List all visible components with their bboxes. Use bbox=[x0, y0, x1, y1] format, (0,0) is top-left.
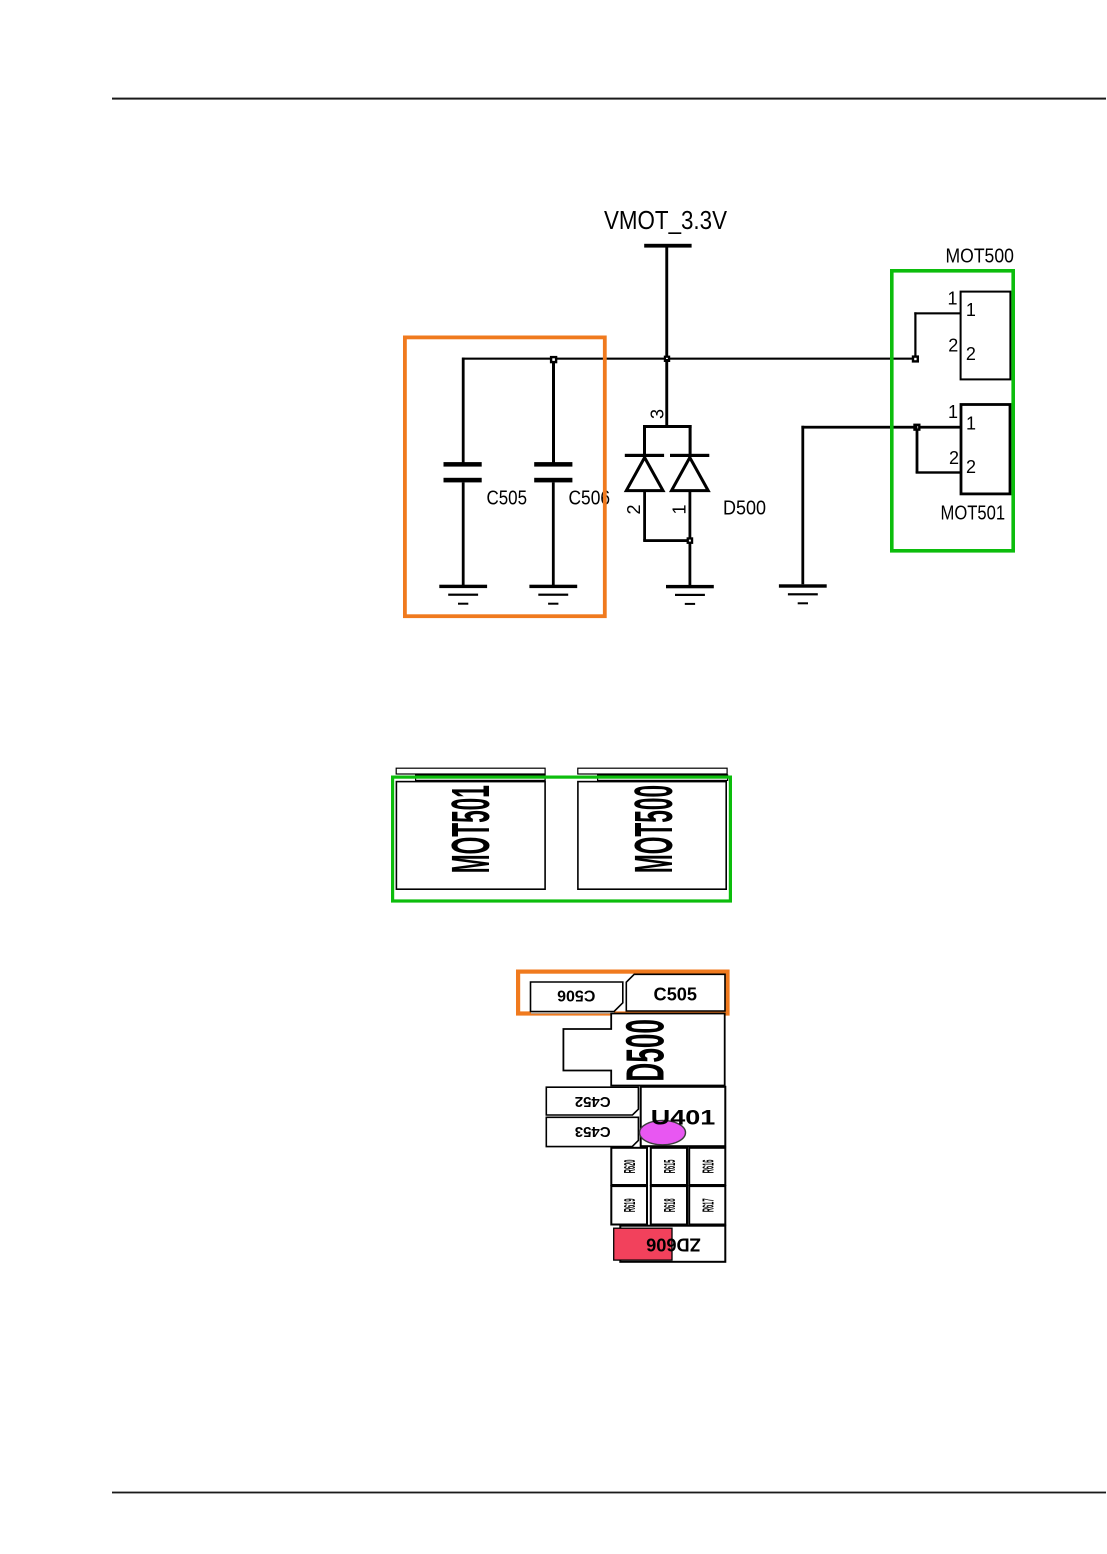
top rule bbox=[112, 98, 1106, 100]
C506 pad bbox=[531, 982, 623, 1012]
connector MOT500 box bbox=[961, 292, 1011, 380]
ZD606 highlight red bbox=[614, 1228, 672, 1260]
highlight box green (layout MOT group) bbox=[393, 777, 731, 901]
diode D500-1 triangle bbox=[672, 458, 709, 491]
svg-text:R620: R620 bbox=[621, 1159, 640, 1173]
svg-text:D500: D500 bbox=[723, 498, 766, 520]
svg-text:MOT501: MOT501 bbox=[441, 785, 501, 873]
svg-text:2: 2 bbox=[966, 457, 976, 477]
junction node main (VMOT/D500) bbox=[664, 356, 670, 362]
svg-text:MOT500: MOT500 bbox=[946, 246, 1014, 268]
svg-text:C452: C452 bbox=[575, 1093, 611, 1110]
MOT500 footprint inner bar bbox=[598, 775, 728, 780]
ground C505 bbox=[439, 585, 487, 588]
bottom rule bbox=[112, 1492, 1106, 1494]
capacitor C505 bbox=[444, 462, 482, 467]
resistor R618 pad bbox=[651, 1186, 687, 1224]
wire main node to D500 pin3 bbox=[665, 359, 668, 427]
svg-text:2: 2 bbox=[624, 504, 644, 514]
svg-text:2: 2 bbox=[966, 344, 976, 364]
svg-text:ZD606: ZD606 bbox=[646, 1234, 701, 1254]
C506 pad shadow bbox=[531, 1012, 614, 1014]
wire MOT501 ground drop bbox=[801, 426, 804, 585]
resistor R615 pad bbox=[651, 1148, 687, 1185]
svg-text:MOT501: MOT501 bbox=[941, 502, 1006, 524]
MOT501 footprint top bar bbox=[396, 768, 545, 774]
junction MOT501 pin1 node bbox=[913, 424, 920, 431]
MOT500 footprint body bbox=[578, 782, 726, 890]
wire MOT501 pin1 stub bbox=[916, 426, 961, 429]
D500 pad bbox=[563, 1014, 724, 1086]
svg-text:2: 2 bbox=[949, 448, 959, 468]
svg-text:MOT500: MOT500 bbox=[624, 785, 684, 873]
svg-text:3: 3 bbox=[648, 409, 668, 419]
svg-text:C505: C505 bbox=[487, 488, 528, 510]
MOT501 footprint inner bar bbox=[416, 775, 545, 780]
wire MOT501 pin tie vertical bbox=[916, 426, 919, 473]
resistor R620 pad bbox=[611, 1148, 647, 1185]
svg-text:1: 1 bbox=[948, 402, 958, 422]
svg-text:C453: C453 bbox=[575, 1123, 611, 1140]
svg-text:C506: C506 bbox=[557, 987, 595, 1004]
resistor R617 pad bbox=[689, 1186, 725, 1224]
diode D500-1 cathode bar bbox=[670, 454, 709, 457]
diode D500-2 cathode bar bbox=[625, 454, 664, 457]
highlight box green (MOT500/MOT501 group) bbox=[892, 271, 1013, 551]
svg-text:R615: R615 bbox=[660, 1159, 679, 1173]
C453 pad bbox=[546, 1117, 638, 1146]
svg-text:R618: R618 bbox=[660, 1198, 679, 1212]
ZD606 pad bbox=[620, 1226, 725, 1262]
wire MOT500 pin1 stub bbox=[914, 312, 960, 314]
MOT501 footprint body bbox=[396, 782, 545, 890]
svg-text:U401: U401 bbox=[651, 1105, 716, 1129]
junction D500 anode node bbox=[687, 537, 694, 544]
svg-text:1: 1 bbox=[966, 413, 976, 433]
wire D500 anode bridge bbox=[643, 539, 691, 542]
svg-text:1: 1 bbox=[670, 504, 690, 514]
wire MOT501 to ground horizontal bbox=[801, 426, 917, 429]
svg-text:1: 1 bbox=[966, 300, 976, 320]
svg-text:R617: R617 bbox=[699, 1198, 718, 1212]
wire C505 drop bbox=[462, 358, 465, 464]
wire main horizontal net bbox=[462, 358, 916, 360]
MOT500 footprint top bar bbox=[578, 768, 727, 774]
ground MOT501 bbox=[779, 584, 827, 587]
wire VMOT bar to main node bbox=[665, 246, 668, 359]
D500 top tie bar bbox=[643, 425, 692, 428]
wire MOT501 pin2 stub bbox=[916, 471, 961, 473]
svg-text:VMOT_3.3V: VMOT_3.3V bbox=[604, 205, 728, 235]
diode D500-2 triangle bbox=[626, 458, 663, 491]
ground C506 bbox=[529, 585, 577, 588]
marker magenta ellipse U401 bbox=[640, 1120, 686, 1144]
C505 pad bbox=[626, 974, 725, 1011]
U401 body bbox=[641, 1087, 726, 1146]
svg-text:R619: R619 bbox=[621, 1198, 640, 1212]
svg-text:1: 1 bbox=[947, 289, 957, 309]
power bar VMOT_3.3V bbox=[644, 244, 691, 248]
wire C506 drop bbox=[552, 359, 555, 464]
svg-text:D500: D500 bbox=[615, 1019, 675, 1082]
capacitor C506 bbox=[534, 462, 572, 467]
wire MOT500 pin tie vertical bbox=[914, 312, 916, 360]
junction MOT500 pin2 node bbox=[912, 355, 919, 362]
svg-text:2: 2 bbox=[948, 335, 958, 355]
highlight box orange (C505/C506 group) bbox=[405, 337, 605, 616]
highlight box orange (layout C505/C506) bbox=[518, 972, 727, 1014]
svg-text:R616: R616 bbox=[699, 1159, 718, 1173]
resistor R616 pad bbox=[689, 1148, 725, 1185]
resistor R619 pad bbox=[611, 1186, 647, 1224]
svg-text:C505: C505 bbox=[654, 985, 698, 1005]
C452 pad bbox=[546, 1087, 638, 1115]
wire D500-1 anode to ground bbox=[689, 490, 692, 585]
ground D500 bbox=[666, 585, 714, 588]
wire D500-2 anode down bbox=[643, 490, 646, 541]
connector MOT501 box bbox=[961, 405, 1010, 494]
junction node C506 top bbox=[550, 356, 557, 363]
